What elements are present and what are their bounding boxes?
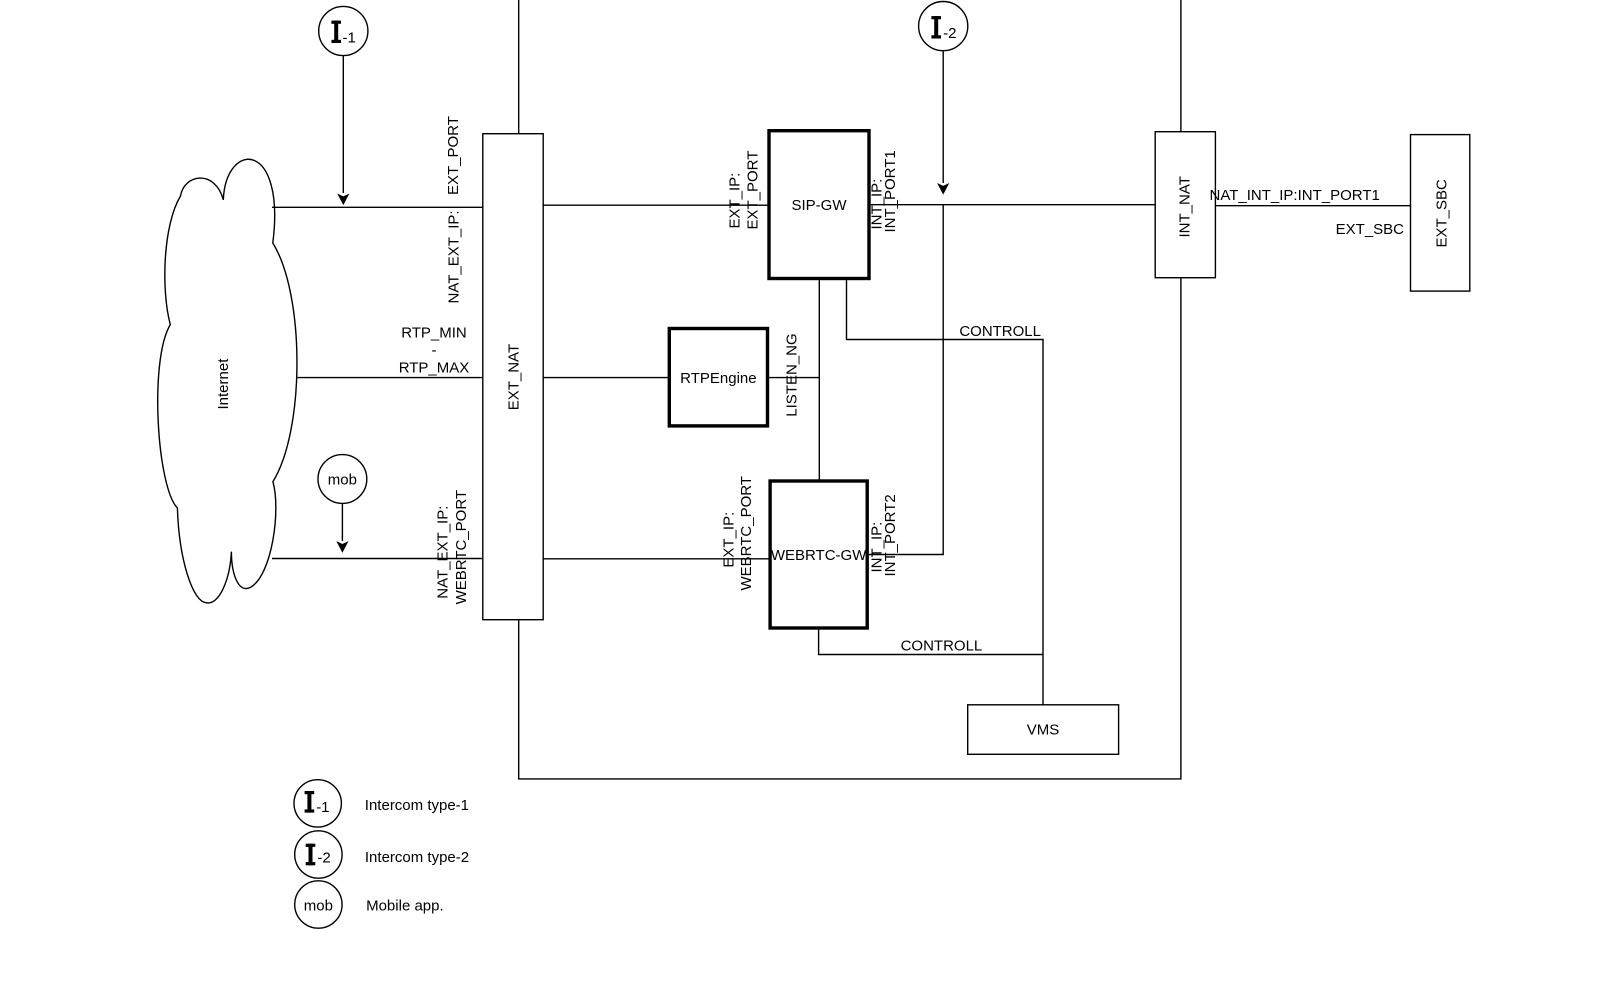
- box VMS: [968, 705, 1119, 755]
- box EXT_SBC: [1411, 135, 1470, 292]
- wire EXT_NAT to SIP-GW: [543, 204, 768, 206]
- label EXT_IP: WEBRTC_PORT (left of WEBRTC-GW): [721, 476, 756, 590]
- label RTP_MIN - RTP_MAX: [399, 324, 470, 376]
- svg-text:WEBRTC_PORT: WEBRTC_PORT: [453, 490, 470, 604]
- intercom I-2 top circle: [919, 2, 968, 51]
- NAT box EXT_NAT: [483, 134, 543, 620]
- cloud Internet: [158, 159, 297, 603]
- wire loop INT_NAT bottom to EXT_NAT bottom: [519, 278, 1181, 779]
- svg-text:LISTEN_NG: LISTEN_NG: [784, 333, 801, 416]
- svg-text:-: -: [432, 342, 437, 359]
- label INT_IP: INT_PORT1 (right of SIP-GW): [869, 150, 900, 232]
- NAT box INT_NAT: [1155, 132, 1215, 278]
- svg-text:-1: -1: [343, 30, 356, 47]
- svg-text:-1: -1: [316, 799, 329, 816]
- svg-text:EXT_IP:: EXT_IP:: [727, 173, 744, 229]
- legend intercom I-2: [295, 831, 469, 878]
- svg-text:SIP-GW: SIP-GW: [792, 197, 848, 214]
- wire internet to EXT_NAT (line 1): [272, 206, 483, 208]
- svg-text:VMS: VMS: [1027, 722, 1060, 739]
- intercom I-1 top circle: [319, 6, 368, 55]
- svg-text:RTPEngine: RTPEngine: [680, 370, 756, 387]
- svg-text:Internet: Internet: [215, 358, 232, 410]
- legend intercom I-1: [294, 780, 469, 827]
- svg-text:WEBRTC-GW: WEBRTC-GW: [771, 547, 867, 564]
- svg-text:mob: mob: [328, 472, 357, 489]
- legend mobile app mob: [295, 881, 444, 928]
- svg-text:-2: -2: [317, 850, 330, 867]
- svg-text:NAT_EXT_IP:: NAT_EXT_IP:: [446, 210, 463, 303]
- svg-text:RTP_MAX: RTP_MAX: [399, 360, 470, 377]
- svg-text:EXT_PORT: EXT_PORT: [745, 151, 762, 230]
- gateway box SIP-GW: [769, 131, 869, 279]
- wire INT_NAT to EXT_SBC: [1215, 205, 1410, 207]
- svg-text:EXT_PORT: EXT_PORT: [445, 116, 462, 195]
- svg-text:NAT_INT_IP:INT_PORT1: NAT_INT_IP:INT_PORT1: [1210, 187, 1380, 204]
- svg-text:CONTROLL: CONTROLL: [959, 323, 1041, 340]
- svg-text:RTP_MIN: RTP_MIN: [401, 324, 467, 341]
- wire EXT_NAT to WEBRTC-GW: [543, 558, 769, 560]
- svg-text:Mobile app.: Mobile app.: [366, 898, 444, 915]
- svg-text:EXT_NAT: EXT_NAT: [506, 344, 523, 410]
- svg-text:mob: mob: [304, 897, 333, 914]
- gateway box WEBRTC-GW: [770, 481, 867, 628]
- svg-text:EXT_SBC: EXT_SBC: [1434, 179, 1451, 248]
- svg-text:NAT_EXT_IP:: NAT_EXT_IP:: [435, 506, 452, 599]
- svg-text:INT_PORT2: INT_PORT2: [882, 494, 899, 576]
- label NAT_EXT_IP: WEBRTC_PORT (webrtc line at EXT_NAT): [435, 490, 470, 604]
- svg-text:EXT_IP:: EXT_IP:: [721, 512, 738, 568]
- mobile app circle mob: [318, 455, 367, 504]
- svg-text:WEBRTC_PORT: WEBRTC_PORT: [738, 476, 755, 590]
- label EXT_IP: EXT_PORT (left of SIP-GW): [727, 151, 762, 230]
- wire EXT_NAT top lead: [518, 0, 520, 134]
- wire internet to EXT_NAT (webrtc line): [272, 558, 483, 560]
- wire arrow I-2 to sip line: [937, 51, 949, 195]
- svg-text:Intercom type-1: Intercom type-1: [365, 797, 469, 814]
- svg-text:INT_PORT1: INT_PORT1: [882, 150, 899, 232]
- wire arrow I-1 to line1: [337, 56, 349, 205]
- wire SIP-GW CONTROLL to VMS: [847, 280, 1044, 705]
- wire INT_NAT top lead: [1180, 0, 1182, 132]
- wire arrow mob to webrtc line: [336, 504, 348, 553]
- box RTPEngine: [669, 329, 767, 426]
- wire EXT_NAT to RTPEngine: [543, 377, 668, 379]
- wire LISTEN_NG vertical SIP-GW to WEBRTC-GW: [818, 280, 820, 480]
- wire SIP-GW to INT_NAT: [871, 204, 1155, 206]
- label INT_IP: INT_PORT2 (right of WEBRTC-GW): [869, 494, 900, 576]
- svg-text:CONTROLL: CONTROLL: [901, 638, 983, 655]
- wire internet to EXT_NAT (RTP line): [298, 377, 484, 379]
- svg-text:EXT_SBC: EXT_SBC: [1336, 221, 1405, 238]
- svg-text:INT_NAT: INT_NAT: [1177, 176, 1194, 237]
- wire I-2 junction down to WEBRTC-GW right: [869, 205, 943, 555]
- wire WEBRTC-GW CONTROLL to VMS: [819, 630, 1043, 655]
- svg-text:-2: -2: [943, 25, 956, 42]
- wire RTPEngine to LISTEN_NG node: [769, 377, 819, 379]
- svg-text:Intercom type-2: Intercom type-2: [365, 849, 469, 866]
